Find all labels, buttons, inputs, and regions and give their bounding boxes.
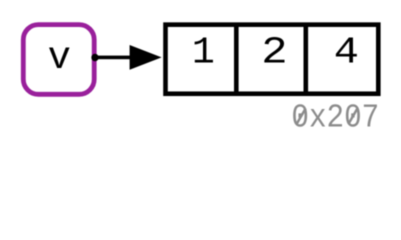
svg-text:0x207: 0x207 <box>291 100 379 137</box>
svg-text:4: 4 <box>334 32 359 75</box>
svg-text:1: 1 <box>192 31 215 74</box>
svg-text:2: 2 <box>261 32 287 75</box>
svg-text:v: v <box>48 36 71 80</box>
